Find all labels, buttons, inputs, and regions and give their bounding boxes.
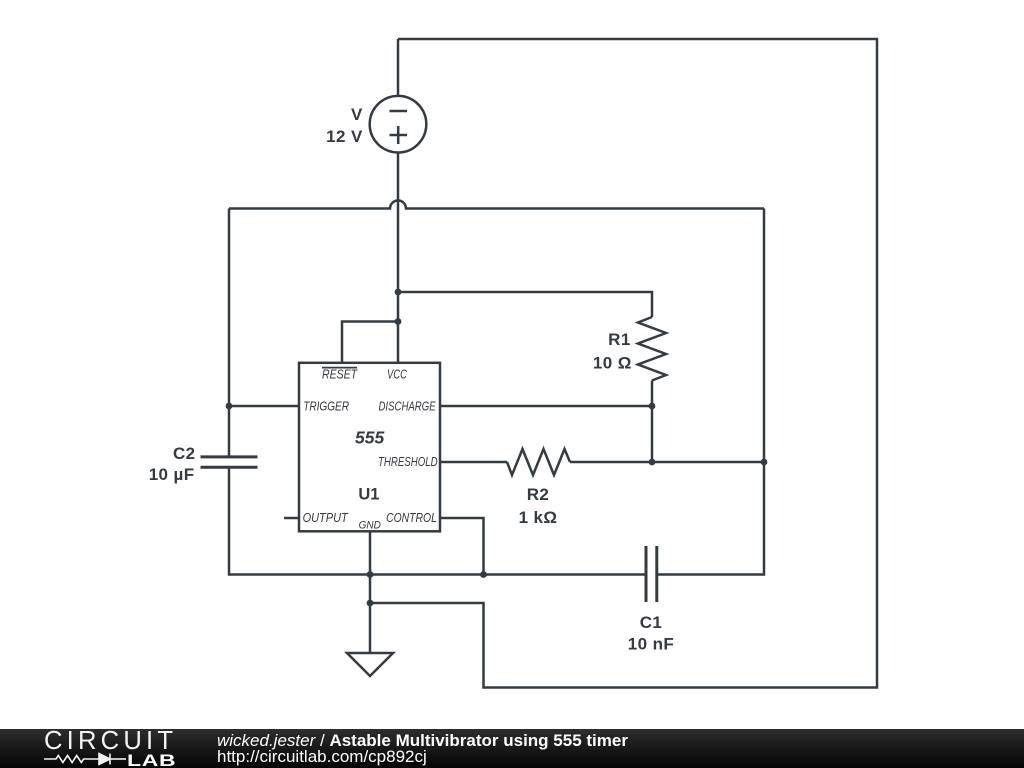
svg-text:10 nF: 10 nF: [628, 635, 674, 654]
svg-text:R2: R2: [527, 485, 550, 504]
svg-text:10 Ω: 10 Ω: [593, 354, 632, 373]
svg-text:C1: C1: [640, 613, 663, 632]
svg-text:OUTPUT: OUTPUT: [303, 510, 349, 525]
svg-text:DISCHARGE: DISCHARGE: [379, 399, 436, 414]
svg-text:THRESHOLD: THRESHOLD: [378, 454, 438, 469]
svg-text:10 µF: 10 µF: [149, 465, 195, 484]
svg-text:555: 555: [355, 427, 384, 447]
svg-text:12 V: 12 V: [326, 127, 363, 146]
svg-text:CONTROL: CONTROL: [386, 510, 437, 525]
svg-text:V: V: [351, 105, 363, 124]
svg-text:R1: R1: [608, 330, 631, 349]
svg-text:VCC: VCC: [387, 366, 407, 381]
svg-text:RESET: RESET: [322, 366, 358, 381]
svg-text:U1: U1: [358, 485, 379, 503]
svg-text:C2: C2: [173, 444, 196, 463]
svg-text:GND: GND: [359, 519, 381, 531]
svg-text:TRIGGER: TRIGGER: [303, 399, 349, 414]
svg-text:1 kΩ: 1 kΩ: [519, 508, 558, 527]
